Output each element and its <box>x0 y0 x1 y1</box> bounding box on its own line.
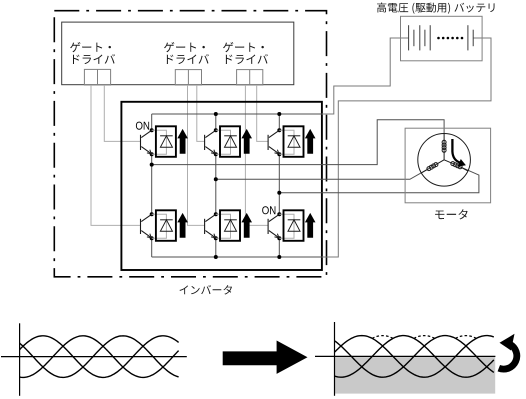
motor M1 box <box>405 128 491 203</box>
wire gate-driver 3 left pin to Q6 gate (bottom row) <box>245 85 268 225</box>
gate-driver unit box <box>62 22 294 85</box>
motor rotation arrow <box>452 139 466 167</box>
diode D5 symbol <box>224 220 237 231</box>
right plot x-axis <box>315 355 495 357</box>
node Q1 collector <box>150 128 154 132</box>
transistor Q5 (IGBT) <box>205 214 216 237</box>
current direction arrow at Q2 <box>241 129 252 154</box>
left plot y-axis <box>19 323 21 396</box>
diode D6 symbol <box>288 220 301 231</box>
transition arrow (big right arrow) <box>223 341 308 374</box>
motor winding W (right coil) <box>444 160 468 171</box>
diode D5 module box <box>220 210 240 241</box>
node Q6 emitter <box>277 236 281 240</box>
diode D4 module box <box>156 210 176 241</box>
transistor Q4 (IGBT) <box>141 214 152 237</box>
right plot shaded region (gray) <box>335 357 495 394</box>
junction dots on buses and phase taps <box>150 112 282 259</box>
current direction arrow at Q1 <box>177 129 188 154</box>
node Q3 emitter <box>277 152 281 156</box>
wire inverter bottom bus (DC- rail) <box>152 256 322 258</box>
dash-dot enclosure box (HV unit boundary) <box>54 11 326 277</box>
label ON (Q1 conducting) <box>136 122 149 130</box>
transistor Q2 (IGBT) <box>205 130 216 153</box>
current direction arrow at Q4 <box>177 213 188 238</box>
right plot dashed envelope arc near x=382 <box>372 336 393 339</box>
wire gate-driver 2 left pin to Q5 gate (bottom row) <box>188 85 205 225</box>
connector J3 (gate driver 3 output) <box>237 70 263 85</box>
wire column 3 vertical (bus-collector-emitter chain) <box>278 114 280 257</box>
current direction arrow at Q6 <box>305 213 316 238</box>
node Q2 emitter <box>214 152 218 156</box>
label モータ (motor) <box>435 209 468 219</box>
left plot sine wave phase 1 <box>20 336 179 378</box>
left plot x-axis <box>1 356 187 358</box>
right plot sine wave phase 2 <box>335 336 494 378</box>
motor winding U (top coil) <box>442 134 446 160</box>
right plot dashed envelope arc near x=465 <box>455 336 476 339</box>
transistor Q1 (IGBT) <box>141 130 152 153</box>
wire column 2 vertical (bus-collector-emitter chain) <box>215 114 217 257</box>
left plot sine wave phase 3 <box>20 336 179 378</box>
transistor Q3 (IGBT) <box>268 130 279 153</box>
node Q4 collector <box>150 212 154 216</box>
wire Q4 freewheel diode connection <box>152 214 167 238</box>
wire gate-driver 2 right pin to Q2 gate (top row) <box>197 85 205 141</box>
diode D2 module box <box>220 126 240 157</box>
inverter box <box>121 102 322 270</box>
diode D1 module box <box>156 126 176 157</box>
battery BT1 ellipsis dots <box>437 37 463 40</box>
diode D4 symbol <box>160 220 173 231</box>
node Q2 collector <box>214 128 218 132</box>
node Q5 emitter <box>214 236 218 240</box>
wire gate-driver 3 right pin to Q3 gate (top row) <box>257 85 268 141</box>
wire Q2 freewheel diode connection <box>216 130 231 154</box>
wire Q5 freewheel diode connection <box>216 214 231 238</box>
wire column 1 vertical (bus-collector-emitter chain) <box>151 114 153 257</box>
diode D3 module box <box>284 126 304 157</box>
right plot sine wave phase 1 <box>335 336 494 378</box>
connector J1 (gate driver 1 output) <box>84 69 110 85</box>
wire phase W (col3 to motor right winding) <box>279 167 479 193</box>
wire gate-driver 1 left pin to Q4 gate (bottom row) <box>91 85 141 225</box>
rotation arrow (waveform rotate symbol) <box>499 334 517 369</box>
label gate-driver 1 (ゲート・ドライバ) <box>70 42 115 64</box>
node Q5 collector <box>214 212 218 216</box>
diode D6 module box <box>284 210 304 241</box>
node Q1 emitter <box>150 152 154 156</box>
diode D2 symbol <box>224 136 237 147</box>
diode D1 symbol <box>160 136 173 147</box>
node Q6 collector <box>277 212 281 216</box>
label インバータ (inverter) <box>180 285 233 295</box>
current direction arrow at Q5 <box>241 213 252 238</box>
right plot sine wave phase 3 <box>335 336 494 378</box>
diode D3 symbol <box>288 136 301 147</box>
node Q3 collector <box>277 128 281 132</box>
wire gate-driver 1 right pin to Q1 gate (top row) <box>104 85 140 141</box>
label ON (Q6 conducting) <box>262 206 275 214</box>
right plot y-axis <box>334 322 336 396</box>
connector J2 (gate driver 2 output) <box>175 70 201 85</box>
motor winding V (left coil) <box>421 160 444 173</box>
motor M1 stator circle <box>418 134 471 187</box>
label gate-driver 3 (ゲート・ドライバ) <box>223 42 268 64</box>
battery BT1 box <box>401 16 483 61</box>
wire Q3 freewheel diode connection <box>279 130 294 154</box>
wire phase V (col2 to motor left winding) <box>216 169 428 179</box>
transistor Q6 (IGBT) <box>268 214 279 237</box>
current direction arrow at Q3 <box>305 129 316 154</box>
right plot dashed envelope arc near x=424 <box>414 336 435 339</box>
battery BT1 cell plates <box>409 25 474 50</box>
label 高電圧 (駆動用) バッテリ (HV battery) <box>377 3 495 14</box>
node Q4 emitter <box>150 236 154 240</box>
left plot sine wave phase 2 <box>20 336 179 378</box>
wire phase U (col1 to motor top winding) <box>152 120 444 165</box>
wire DC+ battery to inverter top bus <box>321 38 409 114</box>
wire Q6 freewheel diode connection <box>279 214 294 238</box>
label gate-driver 2 (ゲート・ドライバ) <box>164 42 209 64</box>
wire Q1 freewheel diode connection <box>152 130 167 154</box>
wire inverter top bus (DC+ rail) <box>152 113 322 115</box>
wire DC- battery to inverter bottom bus <box>321 38 491 257</box>
